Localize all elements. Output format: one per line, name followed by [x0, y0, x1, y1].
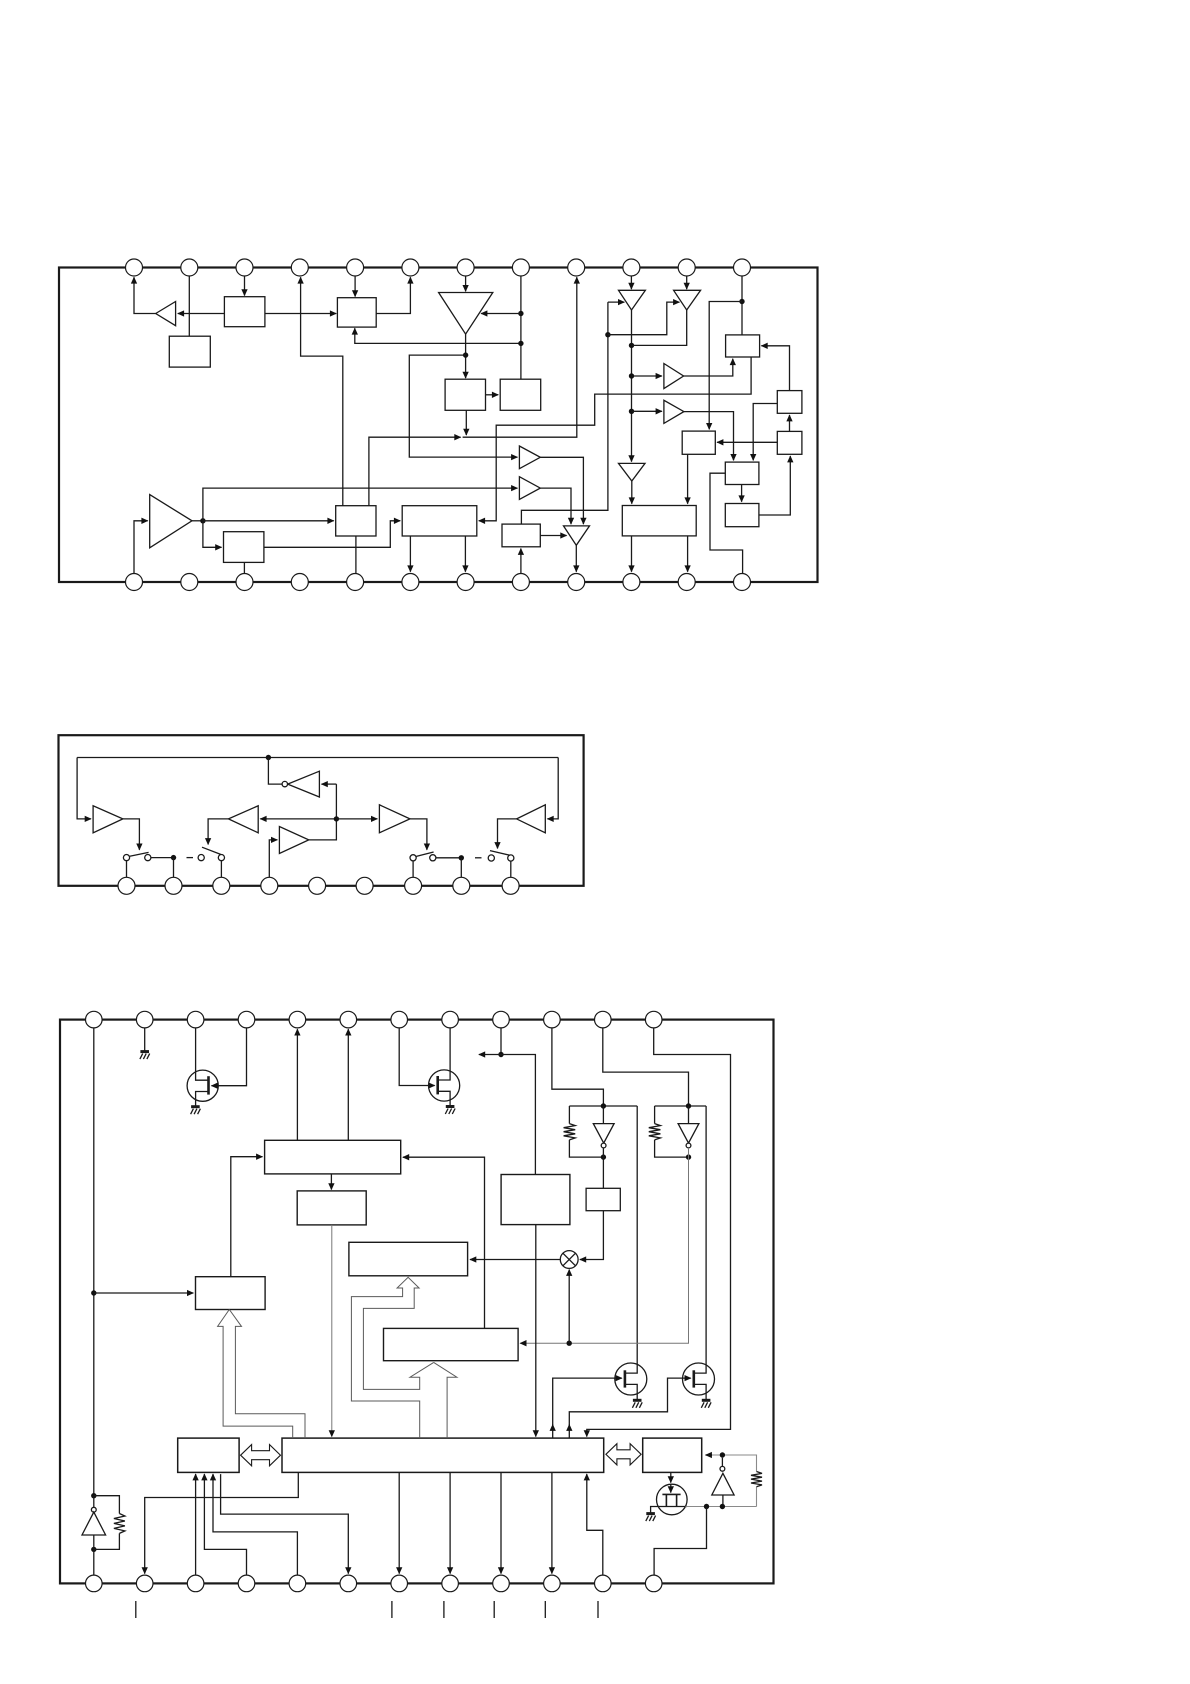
- amp A5 (IC2): [517, 805, 546, 833]
- block arrow bus to demod and agc: [351, 1277, 433, 1438]
- box reg: [196, 1277, 266, 1310]
- wire node to box B13: [203, 520, 334, 522]
- wire amp A6 out to A7: [540, 488, 571, 524]
- switch S1 contact a: [123, 855, 129, 861]
- wire box B15 top chain: [521, 302, 608, 524]
- wire box B16 to pin23: [687, 536, 689, 572]
- wire box B12 to box B14: [264, 521, 400, 548]
- node amp A2 out: [463, 352, 468, 357]
- transistor Q2 body: [429, 1070, 460, 1101]
- pin 12 (IC3 bottom): [645, 1575, 662, 1592]
- pin 1 (top): [126, 259, 143, 276]
- pin 21 (bottom): [568, 574, 585, 591]
- node osc2 bottom: [720, 1504, 725, 1509]
- Q3 gate arrow: [552, 1425, 554, 1431]
- node Q5 out: [704, 1504, 709, 1509]
- node T1-b: [629, 373, 634, 378]
- pin 10 (top): [623, 259, 640, 276]
- wire box B14 to pin19: [464, 536, 466, 572]
- pin 39 (IC3 top): [544, 1011, 561, 1028]
- Q3 channel bar: [624, 1370, 627, 1387]
- tick marks: [136, 1601, 598, 1618]
- wire dsp to bus: [535, 1225, 537, 1437]
- Q4 source: [694, 1384, 706, 1400]
- switch S3 contact a: [410, 855, 416, 861]
- wire box B16 to pin22: [631, 536, 633, 572]
- wire pin39 to filter1: [552, 1028, 604, 1106]
- ground G6: [646, 1512, 655, 1515]
- box pll: [586, 1188, 620, 1210]
- wire N3 to demod: [520, 1148, 688, 1343]
- node demod feed: [567, 1341, 572, 1346]
- pin 7 (IC3 bottom): [391, 1575, 408, 1592]
- node osc1 bottom: [91, 1547, 96, 1552]
- switch S3 lever: [416, 852, 433, 856]
- wire node to amp A6: [203, 488, 518, 521]
- wire bus to Q4 gate: [569, 1378, 691, 1438]
- node osc2 top: [720, 1452, 725, 1457]
- wire pin48 rail: [93, 1028, 95, 1496]
- ground G1: [140, 1050, 149, 1053]
- node filter2 out: [686, 1154, 691, 1159]
- box B13: [336, 506, 376, 536]
- wire node left arrow: [479, 1054, 501, 1056]
- osc1 bubble: [91, 1507, 96, 1512]
- Q3 source: [625, 1384, 637, 1400]
- node pin12: [739, 299, 744, 304]
- switch S2 contact a: [198, 855, 204, 861]
- box B5: [500, 379, 541, 410]
- amp A2: [228, 806, 258, 833]
- box agc: [349, 1242, 468, 1276]
- IC1 outline: [59, 268, 818, 583]
- pin 17 (bottom): [347, 574, 364, 591]
- node filter2: [686, 1103, 691, 1108]
- wire pin42 to Q2 gate: [399, 1028, 435, 1086]
- switch S4 contact a: [488, 855, 494, 861]
- pin 40 (IC3 top): [493, 1011, 510, 1028]
- switch S1 contact b: [145, 855, 151, 861]
- amp A6: [519, 477, 540, 500]
- wire pin40 node: [500, 1028, 502, 1055]
- box B16: [622, 506, 696, 536]
- pin 46 (IC3 top): [187, 1011, 204, 1028]
- pin 3 (top): [236, 259, 253, 276]
- box B1: [169, 336, 210, 367]
- resistor R1: [564, 1124, 576, 1140]
- pin 48 (IC3 top): [86, 1011, 103, 1028]
- wire pll to mixer: [580, 1211, 604, 1260]
- transistor Q5 body: [657, 1484, 688, 1515]
- wire node to box dsp: [501, 1055, 535, 1175]
- wire ram to pin4: [204, 1474, 246, 1575]
- wire pin3 to box B2: [244, 276, 246, 295]
- inverter N5: [712, 1473, 734, 1495]
- wire box B7 to box B16: [687, 454, 689, 503]
- wire pin2 to box B1: [188, 276, 190, 336]
- mixer X1 cross: [563, 1253, 575, 1265]
- wire cpu to pin9: [500, 1472, 502, 1573]
- pin 9 (IC2 bottom): [502, 877, 519, 894]
- switch S2 contact b: [218, 855, 224, 861]
- pin 3 (IC3 bottom): [187, 1575, 204, 1592]
- pin 7 (top): [457, 259, 474, 276]
- wire servo1 to pin43: [347, 1029, 349, 1140]
- wire box B8 to box B11: [753, 404, 777, 461]
- node W1: [605, 332, 610, 337]
- box B7: [682, 431, 715, 454]
- wire ram to pin5: [213, 1474, 297, 1575]
- amp A7: [564, 526, 590, 545]
- wire A1 out to pin1: [134, 277, 156, 313]
- switch S1 lever: [130, 852, 149, 856]
- wire osc1 bubble link: [93, 1496, 95, 1508]
- pin 24 (bottom): [734, 574, 751, 591]
- buffer A1: [156, 302, 176, 326]
- node pin40: [498, 1052, 503, 1057]
- wire node to box B12: [203, 521, 222, 548]
- wire box B2 to box B3: [265, 313, 336, 315]
- box ram: [178, 1438, 239, 1472]
- pin 2 (IC2 bottom): [165, 877, 182, 894]
- wire io to Q5: [670, 1472, 672, 1482]
- wire cpu to pin10: [551, 1472, 553, 1573]
- Q1 source: [196, 1092, 209, 1107]
- pin 5 (IC3 bottom): [289, 1575, 306, 1592]
- pin 41 (IC3 top): [442, 1011, 459, 1028]
- IC3 outline: [60, 1020, 774, 1584]
- Q2 drain: [438, 1028, 450, 1080]
- pin 15 (bottom): [236, 574, 253, 591]
- wire cpu to pin2: [145, 1472, 299, 1573]
- Q2 channel bar: [436, 1076, 439, 1094]
- wire pin7 to amp A2: [465, 276, 467, 291]
- wire N1 out to feedback: [268, 758, 282, 785]
- wire node to N3: [688, 1106, 690, 1124]
- wire pin38 to filter2: [603, 1028, 689, 1106]
- box B14: [402, 506, 477, 536]
- pin 22 (bottom): [623, 574, 640, 591]
- pin 7 (IC2 bottom): [405, 877, 422, 894]
- wire S4 to pin9: [510, 861, 512, 877]
- inverter N1 bubble: [282, 781, 287, 786]
- wire node to box B3 bottom: [355, 328, 521, 343]
- osc2 bubble: [720, 1466, 725, 1471]
- filter2 rail: [655, 1105, 707, 1107]
- wire T3 to box B16: [631, 481, 633, 504]
- node filter1: [601, 1103, 606, 1108]
- wire amp A7 to pin21: [575, 545, 577, 571]
- pin 9 (top): [568, 259, 585, 276]
- box B8: [777, 391, 802, 414]
- pin 45 (IC3 top): [238, 1011, 255, 1028]
- dashed link S1-S2: [187, 857, 194, 859]
- box servo1: [265, 1140, 401, 1174]
- amp A1: [93, 806, 123, 833]
- pin 44 (IC3 top): [289, 1011, 306, 1028]
- pin 8 (IC3 bottom): [442, 1575, 459, 1592]
- wire mixer to box agc: [470, 1259, 560, 1261]
- block arrow bus to demod right side: [434, 1362, 457, 1438]
- box B2: [224, 297, 265, 327]
- wire box B12 to pin15: [243, 562, 245, 573]
- box B3: [337, 298, 376, 327]
- pin 42 (IC3 top): [391, 1011, 408, 1028]
- wire amp A2 out to box B4: [465, 334, 467, 378]
- pin 9 (IC3 bottom): [493, 1575, 510, 1592]
- pin 2 (IC3 bottom): [136, 1575, 153, 1592]
- box B10: [725, 504, 759, 527]
- transistor Q4 body: [683, 1363, 715, 1395]
- pin 11 (top): [678, 259, 695, 276]
- box B12: [224, 532, 264, 563]
- wire amp A1 to switch S1: [123, 819, 139, 850]
- Q4 gate arrow: [568, 1425, 570, 1431]
- inverter T2: [674, 290, 701, 310]
- ground G5: [702, 1399, 711, 1402]
- filter1 right leg: [625, 1106, 637, 1373]
- wire servo1 to decoder: [330, 1174, 332, 1190]
- wire amp A5 out to A7: [540, 457, 583, 524]
- node filter1 out: [601, 1154, 606, 1159]
- inverter T3: [619, 463, 646, 481]
- wire ram to pin6: [221, 1474, 349, 1574]
- wire box B15 to amp A7: [540, 535, 566, 537]
- wire box B10 to box B9: [759, 456, 790, 515]
- switch S2 lever: [202, 847, 221, 854]
- node S3: [459, 855, 464, 860]
- pin 37 (IC3 top): [645, 1011, 662, 1028]
- node osc1 top: [91, 1493, 96, 1498]
- pin 4 (top): [291, 259, 308, 276]
- osc2 bottom rail: [686, 1487, 757, 1507]
- ground G2: [191, 1105, 200, 1108]
- pin 8 (top): [512, 259, 529, 276]
- wire feedback to amp A1: [77, 758, 91, 819]
- Q1 drain: [196, 1028, 209, 1080]
- filter2 right leg: [694, 1106, 706, 1373]
- box B6: [726, 335, 760, 357]
- ground G3: [446, 1105, 455, 1108]
- wire node to amp A8: [632, 375, 662, 377]
- pin 3 (IC2 bottom): [213, 877, 230, 894]
- pin 4 (IC3 bottom): [238, 1575, 255, 1592]
- filter1 left leg: [568, 1106, 570, 1124]
- wire node to amp A4: [336, 818, 377, 820]
- wire pin13 to amp A3: [134, 521, 148, 574]
- wire N4 base link: [93, 1535, 95, 1549]
- Q4 channel bar: [692, 1370, 695, 1387]
- switch S4 lever: [490, 851, 510, 856]
- pin 43 (IC3 top): [340, 1011, 357, 1028]
- amp A4: [379, 805, 410, 833]
- switch S4 contact b: [508, 855, 514, 861]
- amp A8: [664, 364, 684, 389]
- pin 13 (bottom): [126, 574, 143, 591]
- filter2 left leg: [654, 1106, 656, 1124]
- box dsp: [501, 1175, 570, 1225]
- wire S2 to pin3: [220, 861, 222, 878]
- Q5 ground stub: [651, 1507, 659, 1514]
- pin 4 (IC2 bottom): [261, 877, 278, 894]
- box demod: [384, 1328, 519, 1360]
- wire box B13 to pin17: [355, 536, 357, 574]
- wire pin12 to box B6: [741, 276, 743, 335]
- transistor Q1 body: [187, 1070, 218, 1101]
- pin 19 (bottom): [457, 574, 474, 591]
- inverter N3: [678, 1124, 699, 1144]
- box B4: [445, 379, 485, 410]
- pin 1 (IC3 bottom): [86, 1575, 103, 1592]
- pin 1 (IC2 bottom): [118, 877, 135, 894]
- node feedback: [266, 755, 271, 760]
- wire pin11 to cpu: [587, 1474, 603, 1575]
- wire box B9 to box B8: [789, 415, 791, 431]
- wire box B14 to pin18: [409, 536, 411, 572]
- wire node to N2: [602, 1106, 604, 1124]
- pin 14 (bottom): [181, 574, 198, 591]
- wire demod to servo1: [403, 1157, 485, 1328]
- wire ram to pin3: [195, 1474, 197, 1575]
- wire amp A4 out to S3: [410, 819, 427, 850]
- wire pin8 to box B5: [520, 276, 522, 379]
- wire pin45 to Q1 gate: [212, 1028, 247, 1086]
- amp A5: [519, 446, 540, 469]
- bus arrow cpu-io: [606, 1444, 641, 1465]
- wire node to pin2: [173, 858, 175, 878]
- node T1-a: [629, 343, 634, 348]
- wire node to T2 input: [608, 302, 680, 335]
- wire osc1 resistor rail b: [94, 1533, 120, 1549]
- pin 5 (IC2 bottom): [309, 877, 326, 894]
- wire pin11 to T2: [686, 276, 688, 289]
- box B9: [777, 431, 802, 454]
- triangle amp A2: [439, 293, 493, 335]
- wire box B13 top node: [369, 437, 461, 506]
- wire box B6 to box B14: [479, 357, 751, 521]
- N3 bubble: [686, 1143, 691, 1148]
- wire node to pin9: [463, 277, 577, 437]
- wire amp A2 out to S2: [208, 819, 228, 845]
- Q5 plates: [662, 1494, 680, 1506]
- wire node to N1 input: [322, 783, 337, 785]
- transistor Q3 body: [615, 1363, 647, 1395]
- wire bus to Q3 gate: [553, 1378, 622, 1438]
- wire reg to servo1: [231, 1157, 263, 1277]
- pin 6 (IC2 bottom): [356, 877, 373, 894]
- wire amp A3 out node: [309, 784, 337, 840]
- wire N5 base link: [722, 1495, 724, 1507]
- mixer X1: [560, 1251, 578, 1269]
- wire T1 out bus: [631, 310, 633, 462]
- pin 18 (bottom): [402, 574, 419, 591]
- pin 23 (bottom): [678, 574, 695, 591]
- wire S1 to node: [151, 857, 174, 859]
- wire pin47 ground stub: [144, 1028, 146, 1052]
- wire amp A3 output node: [192, 520, 203, 522]
- wire pin10 to T1: [630, 276, 632, 289]
- inverter N4: [82, 1512, 106, 1535]
- pin 8 (IC2 bottom): [453, 877, 470, 894]
- inverter N1: [288, 771, 320, 797]
- wire rail to reg: [94, 1292, 194, 1294]
- pin 11 (IC3 bottom): [595, 1575, 612, 1592]
- wire amp A8 to box B6: [684, 359, 733, 376]
- box B15: [502, 524, 540, 547]
- wire box B3 to pin6: [376, 277, 410, 313]
- node T1-c: [629, 409, 634, 414]
- node rail-a: [91, 1290, 96, 1295]
- resistor R2: [649, 1124, 661, 1140]
- box B11: [725, 462, 759, 484]
- wire T2 out: [632, 310, 687, 345]
- filter1 rail: [569, 1105, 637, 1107]
- amp A3 (IC2): [279, 827, 308, 854]
- wire osc1 to pin1: [93, 1549, 95, 1575]
- dashed link S3-S4: [475, 857, 482, 859]
- pin 2 (top): [181, 259, 198, 276]
- wire top feedback: [77, 757, 558, 759]
- wire node to amp A9: [632, 410, 662, 412]
- wire S3 to node: [436, 857, 461, 859]
- switch S3 contact b: [430, 855, 436, 861]
- filter1 left leg b: [569, 1140, 603, 1157]
- wire pin37 to bus: [587, 1028, 731, 1437]
- wire node to pin8: [460, 858, 462, 878]
- bus arrow ram-cpu: [241, 1445, 281, 1466]
- inverter T1: [619, 290, 646, 310]
- pin 10 (IC3 bottom): [544, 1575, 561, 1592]
- pin 6 (IC3 bottom): [340, 1575, 357, 1592]
- wire box B4 to box B5: [486, 394, 499, 396]
- Q1 channel bar: [207, 1076, 210, 1094]
- wire osc2 to io: [706, 1454, 712, 1456]
- wire osc2 bubble link: [721, 1458, 723, 1467]
- node S1: [171, 855, 176, 860]
- wire feedback to amp A5: [547, 758, 558, 819]
- node amp A3 out: [334, 816, 339, 821]
- filter2 left leg b: [655, 1140, 689, 1157]
- IC2 outline: [59, 735, 584, 886]
- op-amp A3: [150, 495, 192, 548]
- wire node to mixer: [568, 1270, 570, 1344]
- wire box B4 bottom: [465, 410, 467, 435]
- pin 5 (top): [347, 259, 364, 276]
- node pin8-b: [518, 341, 523, 346]
- wire S1 to pin1: [126, 861, 128, 878]
- wire cpu to pin8: [449, 1472, 451, 1573]
- wire box B8 to box B6: [761, 346, 789, 391]
- pin 16 (bottom): [291, 574, 308, 591]
- wire node to T1 input: [608, 301, 624, 303]
- wire node to amp A2 right: [481, 313, 521, 315]
- pin 20 (bottom): [512, 574, 529, 591]
- wire pin4 to amp A3: [269, 840, 277, 877]
- wire node to amp A2: [260, 818, 336, 820]
- wire pin5 to box B3: [354, 276, 356, 296]
- Q2 source: [438, 1091, 450, 1106]
- resistor R3: [114, 1514, 125, 1534]
- wire amp A9 to box B11: [684, 412, 734, 461]
- node A3 out: [200, 518, 205, 523]
- inverter N2: [593, 1124, 614, 1144]
- wire node to box B7: [709, 302, 742, 430]
- osc2 top rail: [712, 1455, 757, 1472]
- pin 12 (top): [734, 259, 751, 276]
- wire S3 to pin7: [412, 861, 414, 877]
- box cpu (main bus): [282, 1438, 604, 1472]
- block arrow bus to reg: [218, 1310, 305, 1439]
